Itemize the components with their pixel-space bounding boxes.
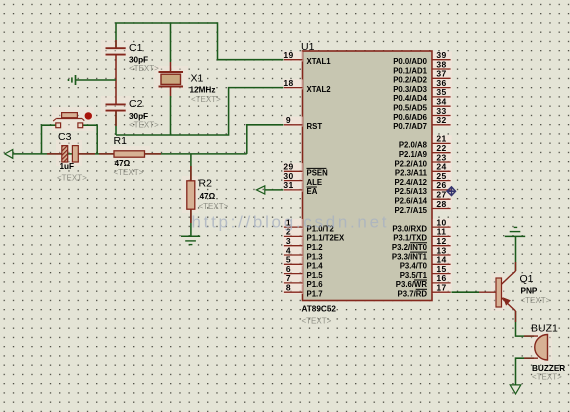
svg-text:P1.7: P1.7 xyxy=(307,290,323,299)
svg-text:<TEXT>: <TEXT> xyxy=(129,64,159,73)
svg-text:P2.7/A15: P2.7/A15 xyxy=(394,206,427,215)
wire C2 leads xyxy=(115,111,117,126)
svg-text:P2.4/A12: P2.4/A12 xyxy=(394,178,427,187)
svg-text:PSEN: PSEN xyxy=(307,169,329,178)
wire X1 leads xyxy=(170,62,172,96)
svg-text:P0.3/AD3: P0.3/AD3 xyxy=(393,85,427,94)
resistor R1 xyxy=(114,151,145,157)
pin 11 P3.1/TXD (right) xyxy=(393,227,452,243)
pin 31 EA (left) xyxy=(283,180,318,196)
svg-text:P3.4/T0: P3.4/T0 xyxy=(400,262,428,271)
svg-text:P3.7/RD: P3.7/RD xyxy=(398,290,428,299)
wire buzzer bottom to output arrow xyxy=(516,358,535,385)
svg-text:R1: R1 xyxy=(114,135,128,147)
svg-text:P0.6/AD6: P0.6/AD6 xyxy=(393,113,427,122)
svg-text:<TEXT>: <TEXT> xyxy=(57,173,87,182)
pin 32 P0.7/AD7 (right) xyxy=(393,115,452,131)
capacitor C2 xyxy=(106,103,126,105)
wire EA terminal to pin 31 xyxy=(265,189,284,191)
wire XTAL2 net: bottom run to pin 18 xyxy=(116,88,284,135)
svg-text:P1.6: P1.6 xyxy=(307,280,324,289)
svg-text:P3.1/TXD: P3.1/TXD xyxy=(393,234,427,243)
svg-text:C3: C3 xyxy=(58,131,72,143)
pin 38 P0.1/AD1 (right) xyxy=(393,59,452,75)
svg-text:18: 18 xyxy=(283,78,293,88)
svg-text:P1.1/T2EX: P1.1/T2EX xyxy=(307,234,346,243)
pin 29 PSEN (left) xyxy=(283,162,328,178)
transistor Q1 xyxy=(496,278,502,307)
pin 12 P3.2/INT0 (right) xyxy=(392,236,452,252)
pin 30 ALE (left) xyxy=(283,171,322,187)
svg-text:<TEXT>: <TEXT> xyxy=(114,168,144,177)
svg-text:<TEXT>: <TEXT> xyxy=(302,317,332,326)
terminal arrow down below buzzer xyxy=(510,385,521,394)
pin 26 P2.5/A13 (right) xyxy=(394,180,451,196)
pin 17 P3.7/RD (right) xyxy=(398,283,452,299)
ground below R2 xyxy=(181,235,200,237)
svg-text:P1.4: P1.4 xyxy=(307,262,324,271)
resistor R2 xyxy=(187,181,195,209)
buzzer BUZ1 xyxy=(524,336,538,358)
svg-text:P3.3/INT1: P3.3/INT1 xyxy=(392,252,428,261)
svg-text:47Ω: 47Ω xyxy=(115,159,131,168)
terminal arrow EA xyxy=(256,186,264,194)
pin 33 P0.6/AD6 (right) xyxy=(393,106,452,122)
wire ground to capacitor midpoint xyxy=(76,79,117,81)
pin 27 P2.6/A14 (right) xyxy=(394,190,451,206)
svg-text:9: 9 xyxy=(286,115,291,125)
svg-text:EA: EA xyxy=(307,187,318,196)
svg-text:P0.7/AD7: P0.7/AD7 xyxy=(393,122,427,131)
pin 15 P3.5/T1 (right) xyxy=(400,264,452,280)
wire reset node to RST pin 9 xyxy=(247,125,284,154)
svg-text:<TEXT>: <TEXT> xyxy=(129,120,159,129)
svg-text:R2: R2 xyxy=(199,178,213,190)
svg-text:8: 8 xyxy=(286,283,291,293)
svg-text:<TEXT>: <TEXT> xyxy=(532,373,562,382)
pin 34 P0.5/AD5 (right) xyxy=(393,97,452,113)
svg-text:47Ω: 47Ω xyxy=(200,192,216,201)
svg-text:P0.1/AD1: P0.1/AD1 xyxy=(393,66,427,75)
svg-text:Q1: Q1 xyxy=(520,273,534,285)
wire R2 bottom to ground xyxy=(190,209,192,236)
svg-text:32: 32 xyxy=(436,115,446,125)
wire XTAL1 net: C1 top to pin 19 xyxy=(116,23,284,60)
pin 35 P0.4/AD4 (right) xyxy=(393,87,452,103)
wire R1 leads xyxy=(99,153,161,155)
wire Q1 emitter to buzzer top xyxy=(516,311,535,336)
pin 36 P0.3/AD3 (right) xyxy=(393,78,452,94)
terminal arrow left (reset supply) xyxy=(5,150,13,159)
svg-text:P3.5/T1: P3.5/T1 xyxy=(400,271,428,280)
ground left (rotated) xyxy=(75,75,77,85)
pin 25 P2.4/A12 (right) xyxy=(394,171,451,187)
pin 4 P1.3 (left) xyxy=(283,245,323,261)
svg-text:PNP: PNP xyxy=(521,287,538,296)
svg-text:P0.2/AD2: P0.2/AD2 xyxy=(393,76,427,85)
svg-text:P1.5: P1.5 xyxy=(307,271,324,280)
wire R2 top tap xyxy=(190,154,192,181)
capacitor C1 xyxy=(106,47,126,49)
svg-text:U1: U1 xyxy=(301,41,315,53)
svg-text:P3.0/RXD: P3.0/RXD xyxy=(392,224,427,233)
svg-text:XTAL2: XTAL2 xyxy=(307,85,332,94)
svg-text:P2.0/A8: P2.0/A8 xyxy=(399,141,428,150)
pin 16 P3.6/WR (right) xyxy=(396,273,452,289)
pin 10 P3.0/RXD (right) xyxy=(392,217,451,233)
wire pin 17 to Q1 base xyxy=(451,291,479,293)
wire Q1 collector to ground xyxy=(515,236,517,270)
push button xyxy=(62,113,78,118)
svg-text:<TEXT>: <TEXT> xyxy=(199,202,229,211)
capacitor C3 (polarized) xyxy=(62,146,68,162)
svg-text:RST: RST xyxy=(307,122,323,131)
svg-text:P3.2/INT0: P3.2/INT0 xyxy=(392,243,428,252)
pin 2 P1.1/T2EX (left) xyxy=(283,227,345,243)
svg-text:http://blog.csdn.net: http://blog.csdn.net xyxy=(192,213,390,232)
svg-text:12MHz: 12MHz xyxy=(190,85,216,94)
pin 28 P2.7/A15 (right) xyxy=(394,199,451,215)
svg-text:28: 28 xyxy=(436,199,446,209)
svg-text:19: 19 xyxy=(283,50,293,60)
svg-text:P1.2: P1.2 xyxy=(307,243,324,252)
op-amp U1 AT89C52 body xyxy=(303,51,433,301)
svg-text:P2.3/A11: P2.3/A11 xyxy=(395,169,428,178)
wire button right leg xyxy=(83,125,98,154)
svg-text:XTAL1: XTAL1 xyxy=(307,57,332,66)
wire C1 leads xyxy=(115,40,117,48)
svg-text:P3.6/WR: P3.6/WR xyxy=(396,280,428,289)
svg-text:P0.0/AD0: P0.0/AD0 xyxy=(393,57,427,66)
wire X1 bottom to XTAL2 net xyxy=(170,96,172,135)
svg-text:31: 31 xyxy=(283,180,293,190)
wire button left leg xyxy=(42,125,56,154)
svg-text:P1.3: P1.3 xyxy=(307,252,324,261)
svg-text:1uF: 1uF xyxy=(60,162,75,171)
svg-text:<TEXT>: <TEXT> xyxy=(191,95,221,104)
pin 13 P3.3/INT1 (right) xyxy=(392,245,452,261)
pin 39 P0.0/AD0 (right) xyxy=(393,50,452,66)
pin 1 P1.0/T2 (left) xyxy=(283,217,334,233)
svg-text:P2.5/A13: P2.5/A13 xyxy=(394,187,427,196)
svg-text:AT89C52: AT89C52 xyxy=(302,305,337,314)
pin 21 P2.0/A8 (right) xyxy=(399,134,452,150)
pin 14 P3.4/T0 (right) xyxy=(400,255,452,271)
svg-text:P2.2/A10: P2.2/A10 xyxy=(394,159,427,168)
svg-text:P2.6/A14: P2.6/A14 xyxy=(394,197,427,206)
pin 8 P1.7 (left) xyxy=(283,283,323,299)
pin 19 XTAL1 (left) xyxy=(283,50,331,66)
wire C2 bottom to XTAL2 net xyxy=(115,111,117,135)
node marker at pin 26 xyxy=(447,187,456,196)
pin 22 P2.1/A9 (right) xyxy=(399,143,452,159)
pin 23 P2.2/A10 (right) xyxy=(394,152,451,168)
wire C1 bottom to C2 top (ground node) xyxy=(115,55,117,105)
svg-text:17: 17 xyxy=(436,283,446,293)
pin 24 P2.3/A11 (right) xyxy=(395,162,452,178)
wire C3 leads xyxy=(47,153,95,155)
wire reset node run xyxy=(13,153,247,155)
svg-text:BUZ1: BUZ1 xyxy=(531,323,558,335)
svg-text:X1: X1 xyxy=(191,73,204,85)
svg-text:C2: C2 xyxy=(129,98,143,110)
crystal X1 xyxy=(159,71,184,73)
svg-text:P0.4/AD4: P0.4/AD4 xyxy=(393,94,427,103)
pin 9 RST (left) xyxy=(283,115,322,131)
ground above Q1 (flipped) xyxy=(505,235,525,237)
wire X1 top to XTAL1 net xyxy=(170,23,172,62)
pin 18 XTAL2 (left) xyxy=(283,78,331,94)
pin 6 P1.5 (left) xyxy=(283,264,323,280)
pin 5 P1.4 (left) xyxy=(283,255,323,271)
pin 37 P0.2/AD2 (right) xyxy=(393,69,452,85)
svg-text:<TEXT>: <TEXT> xyxy=(521,296,551,305)
pin 7 P1.6 (left) xyxy=(283,273,323,289)
svg-text:P0.5/AD5: P0.5/AD5 xyxy=(393,104,427,113)
pin 3 P1.2 (left) xyxy=(283,236,323,252)
svg-text:P2.1/A9: P2.1/A9 xyxy=(399,150,428,159)
wire R2 leads xyxy=(190,166,192,223)
svg-text:C1: C1 xyxy=(129,42,143,54)
svg-text:ALE: ALE xyxy=(307,178,323,187)
